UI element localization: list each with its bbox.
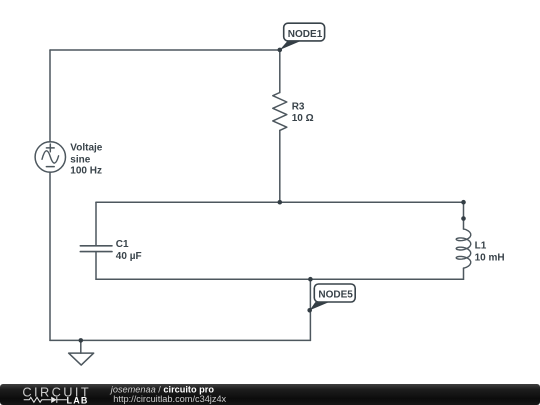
inductor L1 coil	[456, 229, 471, 268]
svg-text:100 Hz: 100 Hz	[70, 165, 102, 176]
node NODE5 tail dot	[307, 308, 312, 313]
CircuitLab logo diode triangle	[51, 397, 57, 403]
wire tank loop top	[96, 201, 464, 203]
svg-text:Voltaje: Voltaje	[70, 143, 102, 154]
wire tank loop bottom	[96, 278, 464, 280]
svg-text:sine: sine	[70, 154, 90, 165]
voltage source V1 circle	[35, 142, 65, 172]
wire inductor top lead	[463, 202, 465, 229]
wire bottom rail	[50, 339, 310, 341]
node NODE5 label box	[314, 284, 355, 302]
svg-text:R3: R3	[292, 102, 305, 113]
svg-text:L1: L1	[475, 241, 487, 252]
voltage source sine symbol	[42, 151, 59, 163]
svg-text:10 mH: 10 mH	[475, 252, 505, 263]
capacitor C1 label	[116, 239, 142, 262]
CircuitLab logo squiggle resistor-diode	[24, 397, 67, 403]
resistor R3 zigzag	[273, 93, 287, 131]
wire resistor top lead	[279, 50, 281, 93]
wire resistor bottom lead	[279, 130, 281, 202]
ground junction dot	[79, 338, 84, 343]
wire inductor bottom lead	[463, 268, 465, 279]
wire source top lead	[49, 50, 51, 142]
node NODE5 junction dot top	[308, 277, 313, 282]
wire capacitor bottom lead	[95, 252, 97, 280]
node junction dot tank top-right	[461, 200, 466, 205]
wire capacitor top lead	[95, 202, 97, 246]
node NODE1 tail pointer	[280, 41, 301, 50]
svg-text:10 Ω: 10 Ω	[292, 113, 314, 124]
ground stem	[80, 340, 82, 353]
svg-text:40 µF: 40 µF	[116, 251, 142, 262]
svg-text:http://circuitlab.com/c34jz4x: http://circuitlab.com/c34jz4x	[113, 394, 226, 404]
voltage source V1 label	[70, 143, 102, 177]
voltage source minus sign	[46, 166, 54, 168]
node junction dot resistor-tank	[278, 200, 283, 205]
node NODE1 label box	[284, 23, 325, 41]
svg-text:NODE1: NODE1	[288, 29, 323, 40]
voltage source plus sign	[46, 144, 54, 152]
wire source bottom lead	[49, 172, 51, 340]
svg-text:NODE5: NODE5	[318, 289, 353, 300]
wire node5 drop	[309, 279, 311, 340]
inductor L1 label	[475, 241, 505, 264]
capacitor C1 plates	[80, 246, 112, 252]
footer bar background	[0, 384, 540, 405]
svg-text:C1: C1	[116, 239, 129, 250]
node NODE1 junction dot	[278, 48, 283, 53]
ground triangle	[69, 353, 94, 365]
node NODE5 tail pointer	[310, 302, 329, 310]
inductor L1 phase dot	[461, 216, 466, 221]
resistor R3 label	[292, 102, 314, 125]
wire top rail from source to node1	[50, 49, 280, 51]
svg-text:LAB: LAB	[67, 396, 89, 405]
